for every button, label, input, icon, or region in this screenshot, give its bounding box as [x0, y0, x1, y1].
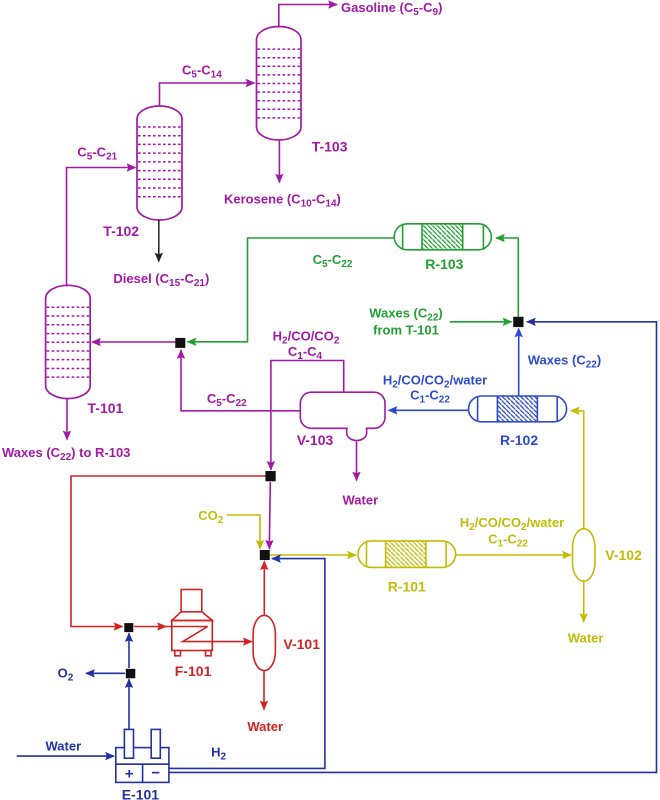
- electrolyzer E-101: [116, 729, 169, 782]
- wire R-102 top to junction D: [518, 329, 520, 397]
- vessel V-101: [253, 615, 275, 670]
- wire E-101 H2 to junction C: [169, 559, 325, 769]
- node D: R-103 feed mix: [513, 317, 523, 327]
- svg-text:H2/CO/CO2/water: H2/CO/CO2/water: [460, 515, 564, 533]
- wire V-103 liquid out to junction A: [181, 350, 300, 411]
- wire junction D up to R-103 inlet: [496, 238, 518, 317]
- svg-text:V-101: V-101: [283, 636, 320, 652]
- reactor R-102: [469, 396, 567, 422]
- wire junction C to R-101: [270, 554, 356, 556]
- svg-text:V-103: V-103: [297, 432, 334, 448]
- furnace F-101: [172, 590, 213, 656]
- node B: V-103 overhead split: [265, 471, 275, 481]
- node C: R-101 feed mix: [260, 550, 270, 560]
- svg-text:Water: Water: [247, 719, 283, 734]
- wire T-101 bottom to Waxes: [66, 399, 68, 440]
- wire V-103 overhead to junction B: [271, 361, 344, 470]
- svg-text:T-101: T-101: [88, 400, 124, 416]
- wire junction F to junction E: [128, 633, 130, 668]
- wire Waxes from T-101 stub to junction D: [450, 321, 512, 323]
- svg-text:E-101: E-101: [122, 787, 160, 800]
- node A: mix to T-101: [175, 338, 185, 348]
- wire R-102 outlet to V-103: [389, 409, 469, 411]
- vessel V-103: [300, 392, 385, 440]
- svg-text:C1-C4: C1-C4: [288, 344, 323, 362]
- wire T-103 bottom to Kerosene: [278, 140, 280, 183]
- svg-text:R-101: R-101: [388, 579, 426, 595]
- wire V-101 top to junction C: [263, 561, 265, 615]
- wire V-101 bottom to Water: [263, 671, 265, 710]
- svg-text:Gasoline (C5-C9): Gasoline (C5-C9): [341, 0, 442, 18]
- wire T-102 bottom to Diesel (black): [158, 220, 160, 262]
- wire T-101 top to T-102 feed: [67, 168, 136, 287]
- wire E-101 H2 long loop to junction D: [169, 322, 657, 773]
- wire E-101 top to junction F: [128, 679, 130, 729]
- svg-text:CO2: CO2: [198, 508, 224, 526]
- svg-text:V-102: V-102: [605, 547, 642, 563]
- reactor R-101: [358, 541, 456, 568]
- wire V-102 top to R-102 inlet: [571, 411, 584, 529]
- wire CO2 to junction C: [227, 515, 260, 549]
- column T-102: [137, 106, 182, 220]
- svg-text:H2: H2: [211, 745, 226, 763]
- node E: F-101 feed mix: [124, 623, 133, 632]
- reactor R-103: [394, 224, 491, 250]
- svg-text:T-102: T-102: [103, 223, 139, 239]
- svg-text:C5-C22: C5-C22: [207, 391, 247, 409]
- column T-103: [257, 27, 302, 141]
- wire V-102 bottom to Water: [583, 581, 585, 622]
- svg-text:C5-C14: C5-C14: [182, 63, 222, 81]
- svg-text:C5-C21: C5-C21: [77, 145, 117, 163]
- wire Water feed to E-101: [17, 755, 114, 757]
- wire F-101 coil to V-101: [183, 627, 252, 642]
- svg-text:Waxes (C22) to R-103: Waxes (C22) to R-103: [2, 445, 130, 463]
- svg-text:from T-101: from T-101: [373, 323, 439, 338]
- wire R-103 outlet loop to junction A: [188, 238, 395, 342]
- svg-text:+: +: [125, 766, 134, 783]
- wire junction F to O2: [86, 672, 125, 674]
- wire R-101 outlet to V-102: [456, 554, 571, 556]
- column T-101: [46, 285, 91, 398]
- svg-text:C5-C22: C5-C22: [313, 252, 353, 270]
- svg-text:T-103: T-103: [312, 139, 348, 155]
- wire T-103 top to Gasoline: [279, 5, 337, 28]
- vessel V-102: [573, 529, 596, 582]
- svg-text:Diesel (C15-C21): Diesel (C15-C21): [113, 271, 209, 289]
- svg-text:Kerosene (C10-C14): Kerosene (C10-C14): [224, 192, 341, 210]
- svg-text:R-102: R-102: [500, 432, 538, 448]
- svg-text:Water: Water: [568, 631, 604, 646]
- node F: O2 split: [126, 669, 136, 679]
- wire junction B down to junction C: [269, 482, 270, 549]
- svg-text:Water: Water: [46, 739, 82, 754]
- svg-text:Water: Water: [343, 493, 379, 508]
- svg-text:−: −: [151, 765, 160, 782]
- svg-text:Waxes (C22): Waxes (C22): [528, 353, 602, 371]
- wire T-102 top to T-103 feed: [160, 83, 255, 107]
- svg-text:O2: O2: [58, 666, 74, 684]
- wire junction A to T-101 feed: [92, 341, 176, 343]
- wire junction B recycle to junction E: [71, 476, 266, 627]
- svg-text:F-101: F-101: [175, 663, 212, 679]
- svg-text:R-103: R-103: [425, 256, 463, 272]
- wire V-103 boot to Water: [356, 442, 358, 481]
- svg-text:Waxes (C22): Waxes (C22): [369, 306, 443, 324]
- wire junction E to F-101: [134, 626, 166, 628]
- svg-text:C1-C22: C1-C22: [488, 532, 528, 550]
